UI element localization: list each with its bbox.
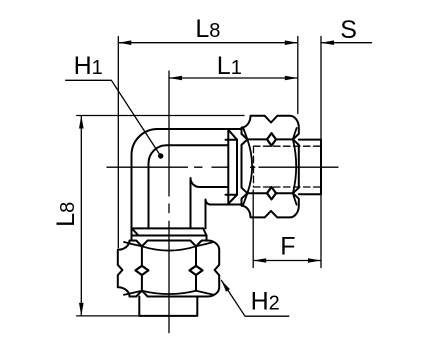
extension line F left <box>252 190 254 268</box>
arrow L8 left <box>118 40 131 45</box>
arrow F left <box>253 258 266 263</box>
bottom tube stub <box>139 297 197 316</box>
right tube stub <box>299 140 321 195</box>
svg-text:L1: L1 <box>217 52 242 80</box>
right collar <box>226 129 238 205</box>
svg-text:S: S <box>340 16 357 44</box>
arrow vertical L8 down <box>79 303 84 316</box>
dimension line L1 <box>169 77 298 79</box>
leader H1 <box>66 80 161 156</box>
svg-text:L8: L8 <box>195 15 220 43</box>
svg-text:F: F <box>280 232 295 260</box>
extension line L8 left <box>117 37 119 249</box>
arrow F right <box>308 258 321 263</box>
svg-text:H2: H2 <box>251 288 280 316</box>
extension line vertical L8 bottom <box>77 315 140 317</box>
bottom nut chamfer arcs <box>124 242 214 295</box>
right nut chamfer arcs <box>243 128 296 205</box>
right nut H1 outline <box>242 116 299 218</box>
leader dot H1 <box>158 153 163 158</box>
horizontal centerline <box>107 166 338 168</box>
dimension line S <box>321 42 372 44</box>
leader H2 <box>221 280 288 316</box>
arrow L1 right <box>285 76 298 81</box>
bottom collar <box>132 228 207 240</box>
svg-text:L8: L8 <box>52 202 80 227</box>
extension line L8/L1 right (nut face) <box>297 37 299 114</box>
elbow body outer contour <box>132 129 242 241</box>
bottom nut chamfer diamonds <box>135 266 202 275</box>
vertical centerline + L1 extension <box>168 71 170 333</box>
arrow vertical L8 up <box>79 116 84 129</box>
dimension line F <box>253 260 321 262</box>
svg-text:H1: H1 <box>74 52 103 80</box>
right nut chamfer diamonds <box>267 133 276 199</box>
extension line vertical L8 top <box>77 115 244 117</box>
hidden bore lines (dashed) <box>254 146 321 187</box>
elbow body inner fillet lines <box>149 145 228 228</box>
arrow H2 leader <box>221 280 230 291</box>
arrow L8 right <box>285 40 298 45</box>
dimension line vertical L8 <box>80 116 82 316</box>
arrowheads <box>79 40 334 316</box>
extension line tube end (S/F right) <box>320 37 322 268</box>
dimension line L8 top <box>118 42 297 44</box>
arrow L1 left <box>169 76 182 81</box>
bottom nut H2 outline <box>118 241 219 297</box>
arrow S left-pointing <box>321 40 334 45</box>
right nut face edge lines <box>247 139 293 193</box>
bottom nut face edge lines <box>142 246 196 290</box>
